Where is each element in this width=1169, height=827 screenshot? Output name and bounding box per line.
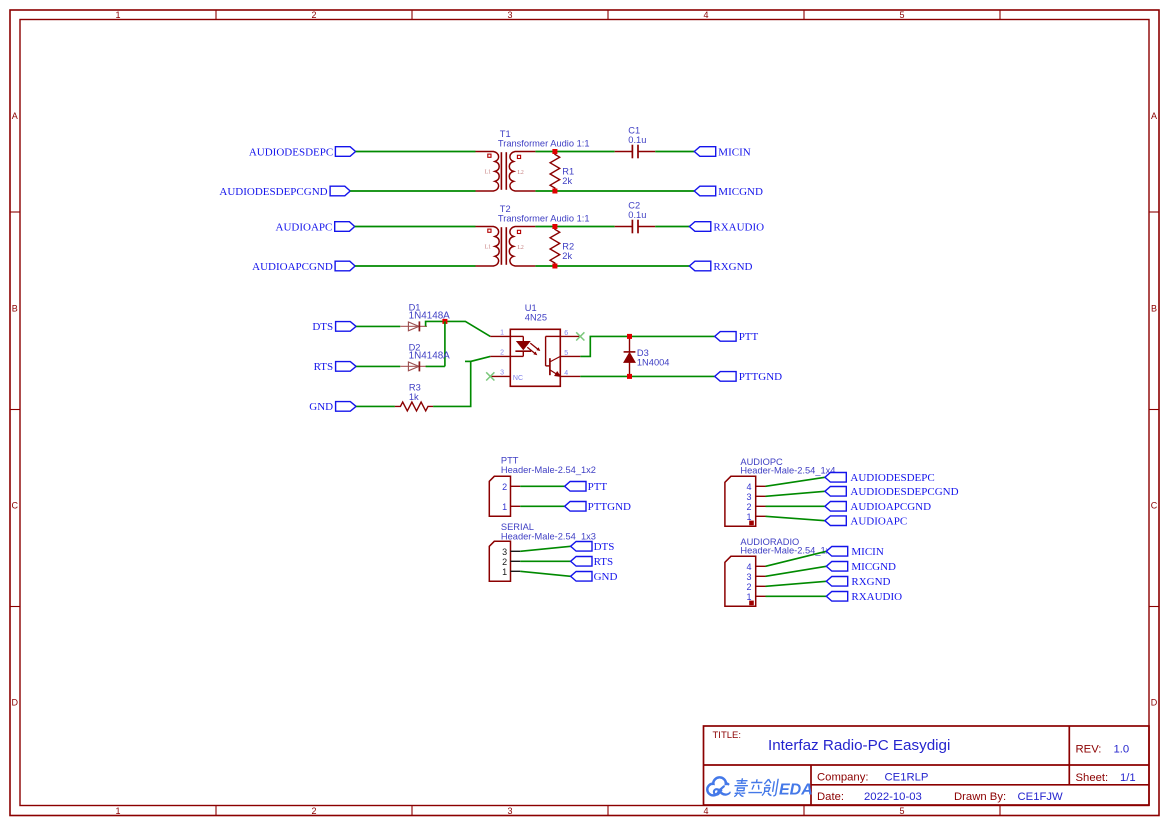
net port DTS <box>312 321 356 333</box>
svg-text:C2: C2 <box>628 200 640 210</box>
svg-text:AUDIOAPCGND: AUDIOAPCGND <box>252 261 333 273</box>
wire junction to D2 <box>444 321 446 366</box>
svg-text:RXGND: RXGND <box>713 261 752 273</box>
svg-text:2: 2 <box>746 582 751 592</box>
wire PTT header pin 1 to PTTGND <box>520 505 564 507</box>
svg-text:2k: 2k <box>562 176 572 186</box>
wire T2 bottom to RXGND <box>535 265 689 267</box>
svg-text:2k: 2k <box>562 251 572 261</box>
SERIAL header pin 3 <box>511 550 521 552</box>
net port PTT <box>715 331 759 343</box>
svg-text:A: A <box>12 111 18 121</box>
AUDIORADIO header pin 3 <box>756 575 766 577</box>
svg-text:3: 3 <box>500 369 504 376</box>
svg-text:D: D <box>1151 698 1158 708</box>
net port RXAUDIO at header <box>826 591 902 603</box>
svg-text:1: 1 <box>502 567 507 577</box>
svg-text:Header-Male-2.54_1x3: Header-Male-2.54_1x3 <box>501 532 596 542</box>
connector AUDIOPC Header-Male-2.54_1x4 body <box>725 476 756 526</box>
transformer T2 <box>476 227 536 267</box>
PTT header pin 2 <box>511 485 521 487</box>
svg-text:1: 1 <box>115 10 120 20</box>
U1 LED light arrow 2 <box>527 347 537 355</box>
svg-text:AUDIOAPC: AUDIOAPC <box>276 221 333 233</box>
net port RXGND <box>689 261 752 273</box>
U1 internal LED <box>510 336 531 356</box>
U1 pin 3 no-connect marker <box>486 372 494 380</box>
svg-text:AUDIODESDEPC: AUDIODESDEPC <box>850 472 934 484</box>
wire SERIAL pin 2 to RTS <box>520 560 570 562</box>
svg-text:2022-10-03: 2022-10-03 <box>864 791 922 803</box>
net port AUDIOAPC at header <box>825 516 907 528</box>
svg-text:MICGND: MICGND <box>851 561 896 573</box>
U1 pin 6 <box>560 335 580 337</box>
net port PTTGND <box>715 371 782 383</box>
wire AUDIOAPC to T2 <box>355 226 476 228</box>
svg-text:EDA: EDA <box>779 782 813 799</box>
AUDIORADIO header pin 1 <box>756 595 766 597</box>
wire C1 to MICIN <box>655 151 694 153</box>
wire D2 to junction <box>426 365 445 367</box>
JLC EDA logo cloud <box>707 777 730 795</box>
junction T1 bottom R1 <box>552 189 557 194</box>
svg-text:CE1RLP: CE1RLP <box>885 772 929 784</box>
svg-text:L2: L2 <box>517 245 524 251</box>
svg-text:D3: D3 <box>637 348 649 358</box>
connector AUDIORADIO Header-Male-2.54_1x4 body <box>725 556 756 606</box>
wire SERIAL pin 1 to GND <box>520 571 570 576</box>
op-to U1 4N25 body <box>510 329 560 386</box>
svg-text:2: 2 <box>502 557 507 567</box>
svg-text:AUDIODESDEPC: AUDIODESDEPC <box>249 146 333 158</box>
AUDIOPC header pin 4 <box>756 485 766 487</box>
svg-text:3: 3 <box>746 492 751 502</box>
svg-text:D: D <box>11 698 18 708</box>
svg-text:C1: C1 <box>628 125 640 135</box>
svg-text:SERIAL: SERIAL <box>501 522 534 532</box>
svg-text:Interfaz Radio-PC Easydigi: Interfaz Radio-PC Easydigi <box>768 737 950 754</box>
svg-text:1.0: 1.0 <box>1114 744 1130 756</box>
resistor R1 <box>550 152 560 191</box>
svg-text:PTT: PTT <box>588 481 608 493</box>
U1 pin 3 <box>490 375 510 377</box>
svg-text:5: 5 <box>899 10 904 20</box>
net port AUDIODESDEPCGND <box>219 186 350 198</box>
svg-text:RXAUDIO: RXAUDIO <box>851 591 902 603</box>
wire AUDIORADIO pin 1 to RXAUDIO <box>766 595 827 597</box>
connector PTT Header-Male-2.54_1x2 body <box>489 476 510 516</box>
wire U1 pin 4 to PTTGND <box>580 375 714 377</box>
svg-text:1: 1 <box>746 592 751 602</box>
svg-text:1/1: 1/1 <box>1120 772 1136 784</box>
U1 pin 5 <box>560 355 580 357</box>
svg-text:1N4148A: 1N4148A <box>409 350 451 361</box>
svg-text:RXGND: RXGND <box>851 576 890 588</box>
svg-text:AUDIOAPC: AUDIOAPC <box>850 516 907 528</box>
U1 pin 6 no-connect marker <box>576 332 584 340</box>
svg-text:R1: R1 <box>562 167 574 177</box>
wire AUDIODESDEPCGND to T1 <box>350 190 475 192</box>
svg-text:4N25: 4N25 <box>525 312 547 322</box>
PTT header pin 1 <box>511 505 521 507</box>
svg-text:Company:: Company: <box>817 772 869 784</box>
svg-text:L1: L1 <box>485 245 492 251</box>
wire AUDIOAPCGND to T2 <box>355 265 475 267</box>
svg-text:CE1FJW: CE1FJW <box>1018 791 1064 803</box>
svg-text:Transformer Audio 1:1: Transformer Audio 1:1 <box>498 214 590 224</box>
svg-text:4: 4 <box>746 562 751 572</box>
svg-text:T1: T1 <box>500 129 511 139</box>
SERIAL header pin 2 <box>511 560 521 562</box>
svg-text:PTT: PTT <box>739 331 759 343</box>
svg-text:AUDIOAPCGND: AUDIOAPCGND <box>850 501 931 513</box>
net port AUDIOAPCGND <box>252 261 355 273</box>
svg-text:NC: NC <box>513 375 523 382</box>
wire AUDIOPC pin 1 to AUDIOAPC <box>766 516 825 520</box>
svg-text:5: 5 <box>564 350 568 357</box>
junction T1 top R1 <box>552 149 557 154</box>
wire AUDIODESDEPC to T1 <box>356 151 476 153</box>
diode D3 1N4004 <box>624 336 636 376</box>
svg-text:DTS: DTS <box>594 541 615 553</box>
svg-text:L1: L1 <box>485 170 492 176</box>
U1 LED light arrow 1 <box>530 343 540 351</box>
AUDIOPC header pin 1 <box>756 515 766 517</box>
svg-text:3: 3 <box>507 806 512 816</box>
wire RTS to D2 <box>356 365 400 367</box>
svg-text:1: 1 <box>746 512 751 522</box>
AUDIORADIO header pin 2 <box>756 585 766 587</box>
net port AUDIOAPCGND at header <box>825 501 931 513</box>
svg-text:Date:: Date: <box>817 791 844 803</box>
svg-text:6: 6 <box>564 330 568 337</box>
svg-text:Sheet:: Sheet: <box>1076 772 1109 784</box>
diode D1 1N4148A <box>400 321 427 331</box>
svg-text:DTS: DTS <box>312 321 333 333</box>
net port RTS at header <box>571 556 614 568</box>
svg-text:4: 4 <box>746 482 751 492</box>
svg-text:1: 1 <box>502 502 507 512</box>
svg-text:PTTGND: PTTGND <box>588 501 631 513</box>
svg-text:AUDIODESDEPCGND: AUDIODESDEPCGND <box>850 486 958 498</box>
svg-text:4: 4 <box>564 370 568 377</box>
svg-text:3: 3 <box>507 10 512 20</box>
wire T1 bottom to MICGND <box>535 190 694 192</box>
net port AUDIOAPC <box>276 221 355 233</box>
svg-text:MICGND: MICGND <box>718 186 763 198</box>
svg-text:B: B <box>1151 304 1157 314</box>
svg-text:L2: L2 <box>517 170 524 176</box>
wire AUDIOPC pin 3 to AUDIODESDEPCGND <box>766 491 825 496</box>
svg-text:0.1u: 0.1u <box>628 210 646 220</box>
svg-text:Drawn By:: Drawn By: <box>954 791 1006 803</box>
net port MICIN at header <box>826 546 884 558</box>
svg-text:0.1u: 0.1u <box>628 135 646 145</box>
svg-text:4: 4 <box>703 10 708 20</box>
svg-text:TITLE:: TITLE: <box>713 730 742 741</box>
transformer T1 <box>476 152 536 192</box>
svg-text:RTS: RTS <box>594 556 614 568</box>
junction T2 bottom R2 <box>552 264 557 269</box>
U1 pin 1 <box>490 335 510 337</box>
svg-text:2: 2 <box>500 349 504 356</box>
svg-text:U1: U1 <box>525 303 537 313</box>
net port AUDIODESDEPCGND at header <box>825 486 959 498</box>
svg-text:B: B <box>12 304 18 314</box>
svg-text:C: C <box>1151 501 1158 511</box>
U1 internal phototransistor <box>546 336 561 376</box>
svg-text:GND: GND <box>309 401 333 413</box>
svg-text:R2: R2 <box>562 242 574 252</box>
svg-text:2: 2 <box>311 806 316 816</box>
svg-text:A: A <box>1151 111 1157 121</box>
wire D1 to U1 pin 1 <box>426 321 491 336</box>
net port PTT at header <box>565 481 608 493</box>
svg-text:MICIN: MICIN <box>718 146 750 158</box>
wire GND to R3 <box>356 405 395 407</box>
capacitor C2 <box>615 220 656 234</box>
wire AUDIOPC pin 2 to AUDIOAPCGND <box>766 505 825 507</box>
svg-text:REV:: REV: <box>1076 744 1102 756</box>
net port RTS <box>314 361 357 373</box>
JLC EDA logo hanzi 嘉立创 <box>733 778 779 796</box>
wire AUDIOPC pin 4 to AUDIODESDEPC <box>766 477 825 486</box>
net port MICIN <box>694 146 750 158</box>
wire U1 pin 5 to PTT <box>580 336 714 356</box>
net port RXGND at header <box>826 576 890 588</box>
wire AUDIORADIO pin 4 to MICIN <box>766 551 827 566</box>
svg-text:PTTGND: PTTGND <box>739 371 782 383</box>
U1 pin 4 <box>560 375 580 377</box>
svg-text:5: 5 <box>899 806 904 816</box>
net port GND <box>309 401 356 413</box>
svg-text:R3: R3 <box>409 382 421 392</box>
svg-text:Header-Male-2.54_1x2: Header-Male-2.54_1x2 <box>501 465 596 475</box>
svg-text:1: 1 <box>115 806 120 816</box>
AUDIORADIO pin 1 marker square <box>749 601 754 606</box>
net port GND at header <box>571 571 618 583</box>
wire AUDIORADIO pin 3 to MICGND <box>766 566 827 576</box>
svg-text:Header-Male-2.54_1x4: Header-Male-2.54_1x4 <box>740 546 835 556</box>
wire SERIAL pin 3 to DTS <box>520 546 570 551</box>
net port MICGND <box>694 186 763 198</box>
SERIAL header pin 1 <box>511 570 521 572</box>
svg-text:RXAUDIO: RXAUDIO <box>713 221 764 233</box>
AUDIOPC pin 1 marker square <box>749 521 754 526</box>
svg-text:GND: GND <box>594 571 618 583</box>
diode D2 1N4148A <box>400 361 427 371</box>
svg-text:2: 2 <box>746 502 751 512</box>
svg-text:MICIN: MICIN <box>851 546 883 558</box>
AUDIORADIO header pin 4 <box>756 565 766 567</box>
resistor R3 <box>395 402 433 411</box>
wire T1 top to C1 <box>535 151 614 153</box>
net port AUDIODESDEPC <box>249 146 356 158</box>
svg-text:3: 3 <box>746 572 751 582</box>
junction D3 PTT <box>627 334 632 339</box>
net port DTS at header <box>571 541 615 553</box>
wire R3 to U1 pin 2 <box>433 356 490 406</box>
svg-text:Header-Male-2.54_1x4: Header-Male-2.54_1x4 <box>740 466 835 476</box>
capacitor C1 <box>615 145 656 159</box>
net port RXAUDIO <box>689 221 764 233</box>
svg-text:T2: T2 <box>500 204 511 214</box>
AUDIOPC header pin 3 <box>756 495 766 497</box>
wire T2 top to C2 <box>535 226 614 228</box>
svg-text:1N4004: 1N4004 <box>637 358 670 368</box>
svg-text:RTS: RTS <box>314 361 334 373</box>
junction D1 D2 node <box>442 319 447 324</box>
svg-text:1k: 1k <box>409 392 419 402</box>
wire DTS to D1 <box>356 325 400 327</box>
title block <box>704 726 1150 805</box>
net port AUDIODESDEPC at header <box>825 472 935 484</box>
wire AUDIORADIO pin 2 to RXGND <box>766 581 827 586</box>
net port PTTGND at header <box>565 501 631 513</box>
resistor R2 <box>550 227 560 266</box>
svg-text:3: 3 <box>502 547 507 557</box>
wire PTT header pin 2 to PTT <box>520 485 564 487</box>
U1 pin 2 <box>490 355 510 357</box>
AUDIOPC header pin 2 <box>756 505 766 507</box>
wire C2 to RXAUDIO <box>655 226 689 228</box>
svg-text:2: 2 <box>311 10 316 20</box>
connector SERIAL Header-Male-2.54_1x3 body <box>489 541 510 581</box>
net port MICGND at header <box>826 561 896 573</box>
svg-text:C: C <box>11 501 18 511</box>
svg-text:PTT: PTT <box>501 455 519 465</box>
junction D3 PTTGND <box>627 374 632 379</box>
svg-text:1: 1 <box>500 329 504 336</box>
wire stub at R3 corner <box>465 360 471 362</box>
svg-text:4: 4 <box>703 806 708 816</box>
svg-text:2: 2 <box>502 482 507 492</box>
svg-text:Transformer Audio 1:1: Transformer Audio 1:1 <box>498 139 590 149</box>
svg-text:AUDIODESDEPCGND: AUDIODESDEPCGND <box>219 186 327 198</box>
junction T2 top R2 <box>552 224 557 229</box>
